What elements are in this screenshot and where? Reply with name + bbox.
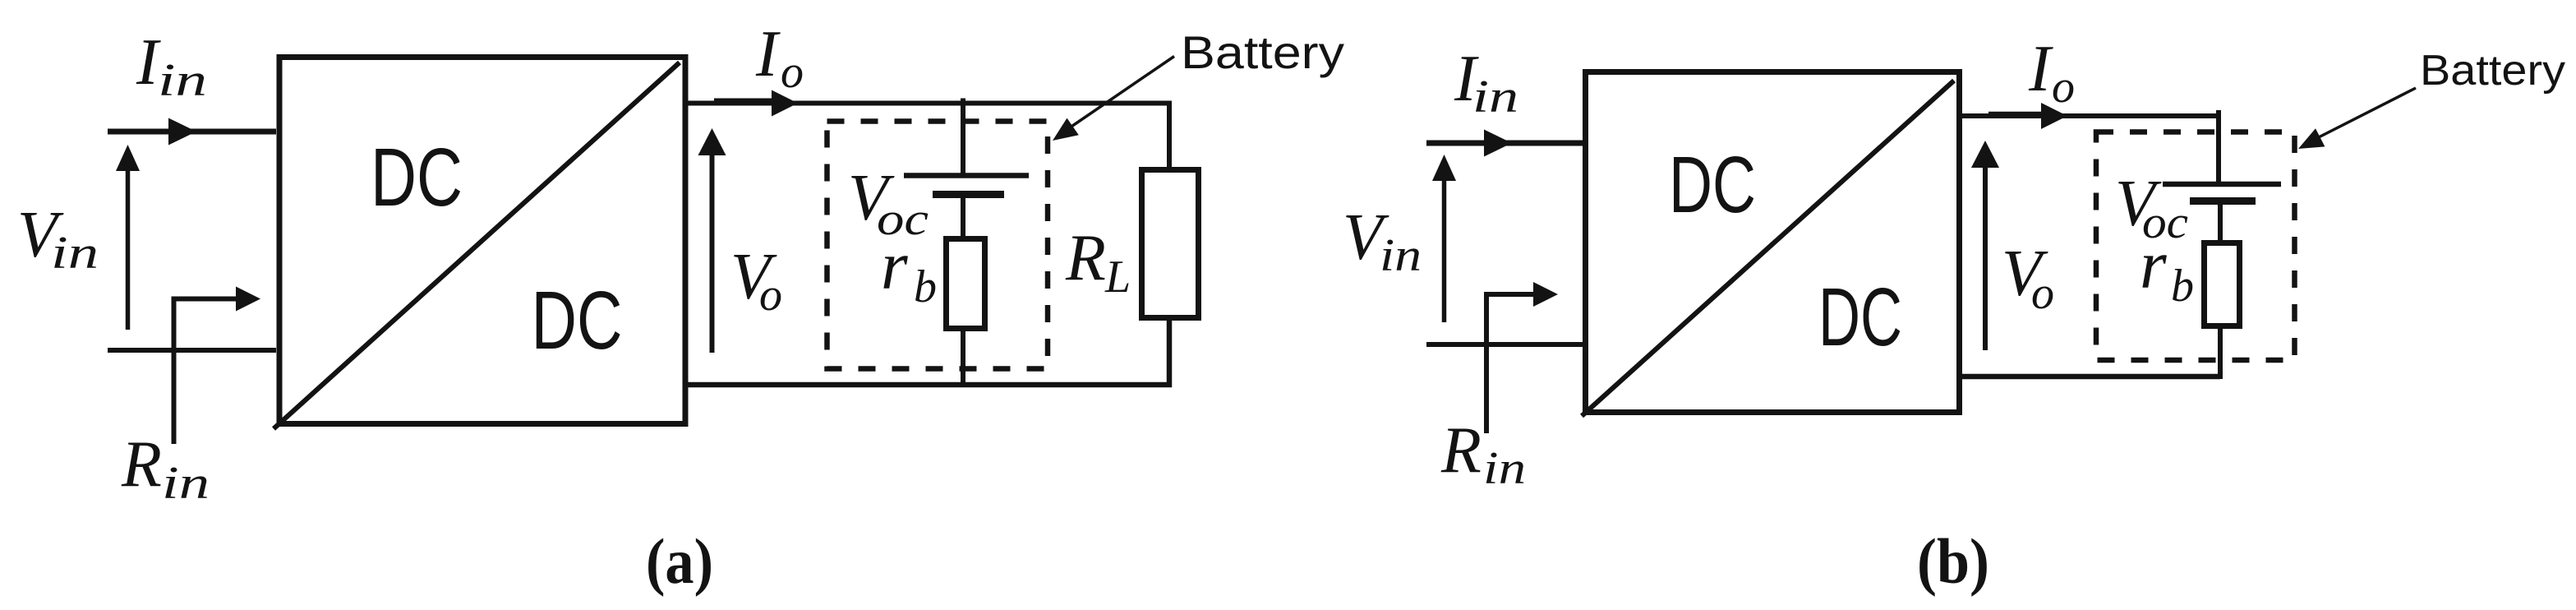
label R_in (b)	[1440, 414, 1526, 494]
battery model dashed box (a)	[827, 122, 1048, 369]
svg-text:(b): (b)	[1917, 525, 1989, 597]
svg-text:b: b	[914, 261, 937, 312]
wire output top (a)	[688, 104, 1169, 169]
label V_oc (b)	[2115, 168, 2188, 248]
label I_o (a)	[755, 18, 804, 98]
svg-text:r: r	[2140, 227, 2167, 303]
current arrow I_in (a)	[168, 118, 196, 146]
svg-text:in: in	[1483, 443, 1526, 494]
svg-text:DC: DC	[371, 132, 463, 224]
svg-text:o: o	[2052, 62, 2075, 113]
input resistance arrow R_in (b)	[1486, 282, 1558, 433]
svg-text:in: in	[51, 228, 99, 279]
svg-text:L: L	[1104, 252, 1131, 303]
battery model dashed box (b)	[2096, 132, 2295, 361]
wire r_b bottom (a)	[961, 329, 965, 387]
input resistance arrow R_in (a)	[174, 287, 261, 445]
svg-text:b: b	[2171, 261, 2194, 312]
svg-text:in: in	[158, 55, 207, 106]
load resistor R_L	[1142, 170, 1199, 318]
label I_in (a)	[136, 26, 207, 106]
svg-text:Battery: Battery	[2420, 47, 2565, 95]
label V_in (a)	[17, 199, 99, 279]
wire input top (a)	[108, 129, 276, 135]
voltage arrow V_in (b)	[1432, 155, 1456, 322]
battery leader arrow (b)	[2298, 88, 2416, 149]
label V_o (a)	[730, 241, 782, 321]
wire output bottom (a)	[688, 320, 1169, 385]
resistor r_b (a)	[947, 239, 985, 329]
wire V_oc to r_b (b)	[2218, 201, 2223, 245]
label R_in (a)	[121, 428, 210, 509]
svg-text:in: in	[1380, 230, 1422, 281]
label I_in (b)	[1454, 43, 1518, 122]
resistor r_b (b)	[2205, 243, 2240, 326]
svg-text:I: I	[2028, 33, 2053, 105]
svg-text:in: in	[162, 458, 210, 509]
wire battery top (b)	[2216, 110, 2221, 185]
dc-dc converter block U1	[279, 58, 685, 424]
wire V_oc to r_b (a)	[961, 195, 965, 241]
battery cell long plate (a)	[904, 173, 1029, 178]
battery cell short plate (b)	[2190, 197, 2256, 205]
wire r_b bottom (b)	[2218, 326, 2223, 379]
svg-text:DC: DC	[1818, 271, 1902, 363]
current arrow I_o (b) lead segment	[1988, 112, 2043, 116]
voltage arrow V_o (b)	[1971, 141, 1999, 350]
dc-dc converter block U2	[1586, 72, 1960, 413]
label V_oc (a)	[848, 162, 929, 245]
label I_o (b)	[2028, 33, 2075, 113]
svg-text:I: I	[755, 18, 781, 90]
label V_o (b)	[2002, 238, 2054, 319]
current arrow I_o (a)	[772, 90, 798, 117]
wire input bottom (a)	[108, 348, 276, 353]
label r_b (a)	[881, 228, 937, 312]
label V_in (b)	[1343, 201, 1422, 281]
svg-text:o: o	[2031, 268, 2054, 319]
svg-text:DC: DC	[532, 275, 623, 367]
label r_b (b)	[2140, 227, 2194, 312]
svg-text:r: r	[881, 228, 908, 304]
converter U2 diagonal	[1582, 81, 1954, 416]
svg-text:DC: DC	[1669, 140, 1756, 229]
current arrow I_in (b)	[1484, 130, 1512, 157]
svg-text:R: R	[1065, 222, 1106, 294]
svg-text:(a): (a)	[646, 525, 713, 597]
wire input top (b)	[1426, 141, 1585, 146]
battery leader arrow (a)	[1053, 57, 1174, 141]
svg-text:Battery: Battery	[1181, 26, 1344, 78]
voltage arrow V_in (a)	[116, 145, 140, 330]
svg-text:in: in	[1472, 72, 1518, 122]
wire input bottom (b)	[1426, 342, 1585, 347]
converter U1 diagonal	[274, 62, 680, 429]
wire battery top (a)	[961, 99, 965, 177]
voltage arrow V_o (a)	[698, 128, 726, 353]
current arrow I_o (b)	[2041, 103, 2067, 129]
wire output top (b)	[1960, 113, 2218, 118]
svg-text:R: R	[121, 428, 162, 501]
battery cell long plate (b)	[2163, 182, 2281, 187]
wire output bottom (b)	[1960, 374, 2220, 380]
svg-text:o: o	[759, 270, 782, 321]
svg-text:o: o	[781, 47, 804, 98]
current arrow I_o (a) lead segment	[714, 99, 773, 103]
svg-text:R: R	[1440, 414, 1482, 487]
battery cell short plate (a)	[933, 191, 1004, 198]
label R_L	[1065, 222, 1131, 303]
